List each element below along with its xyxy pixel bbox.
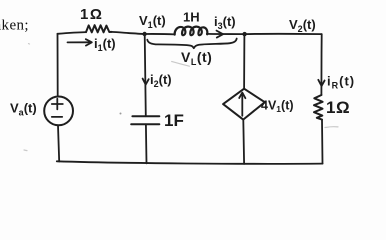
svg-text:1H: 1H — [183, 9, 200, 24]
svg-text:aken;: aken; — [0, 18, 29, 34]
svg-text:i1(t): i1(t) — [94, 36, 116, 53]
svg-text:Va(t): Va(t) — [10, 101, 37, 118]
svg-text:i2(t): i2(t) — [150, 72, 172, 89]
svg-text:VL(t): VL(t) — [181, 49, 212, 67]
svg-text:i3(t): i3(t) — [214, 14, 236, 31]
svg-text:1F: 1F — [164, 111, 184, 130]
svg-text:1Ω: 1Ω — [326, 98, 350, 117]
svg-text:1Ω: 1Ω — [80, 6, 103, 23]
svg-text:iR(t): iR(t) — [327, 74, 355, 91]
svg-text:V1(t): V1(t) — [139, 13, 166, 30]
svg-text:V2(t): V2(t) — [289, 17, 316, 34]
